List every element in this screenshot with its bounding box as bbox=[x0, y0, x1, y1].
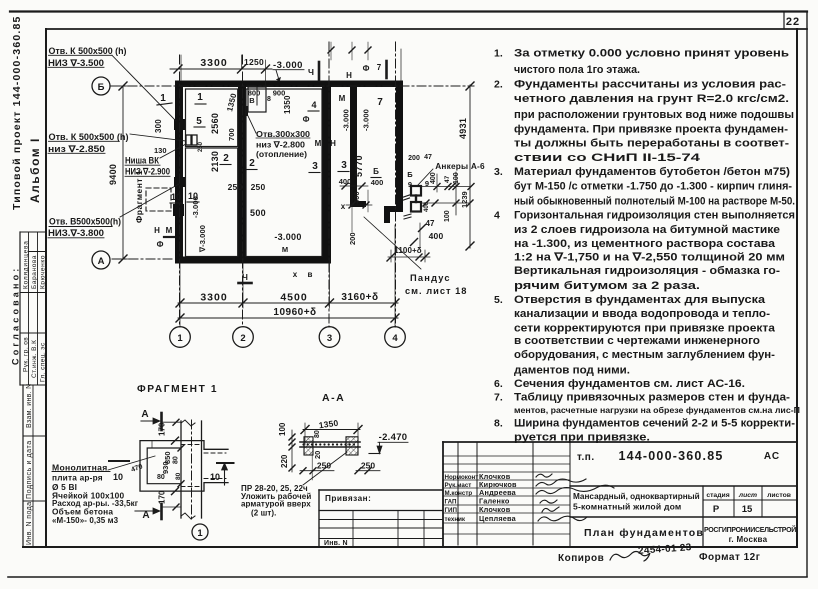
svg-text:Ниша ВК: Ниша ВК bbox=[125, 156, 160, 166]
svg-text:5.: 5. bbox=[494, 294, 503, 306]
svg-text:Рук. гр. ов: Рук. гр. ов bbox=[23, 337, 30, 372]
svg-text:Н: Н bbox=[346, 71, 352, 80]
svg-text:Анкеры А-6: Анкеры А-6 bbox=[435, 161, 485, 171]
svg-text:Отв. К 500х500 (h): Отв. К 500х500 (h) bbox=[49, 132, 129, 142]
svg-text:т.п.: т.п. bbox=[577, 452, 595, 463]
svg-text:8: 8 bbox=[267, 96, 271, 103]
svg-text:1350: 1350 bbox=[318, 418, 339, 431]
svg-text:470: 470 bbox=[130, 463, 143, 474]
svg-text:7: 7 bbox=[377, 97, 383, 108]
svg-text:Взам. инв. N: Взам. инв. N bbox=[26, 383, 33, 428]
svg-text:Б: Б bbox=[373, 167, 379, 176]
svg-text:Согласовано:: Согласовано: bbox=[11, 266, 21, 366]
svg-text:200: 200 bbox=[408, 155, 420, 162]
svg-text:см. лист 18: см. лист 18 bbox=[405, 286, 467, 296]
svg-text:Вертикальная гидроизоляция - о: Вертикальная гидроизоляция - обмазка го- bbox=[514, 265, 780, 277]
svg-text:-2.470: -2.470 bbox=[379, 432, 408, 443]
svg-text:8.: 8. bbox=[494, 418, 503, 430]
svg-text:4: 4 bbox=[392, 333, 398, 344]
svg-text:Горизонтальная гидроизоляция с: Горизонтальная гидроизоляция стен выполн… bbox=[514, 210, 795, 222]
svg-text:250: 250 bbox=[228, 182, 243, 192]
svg-text:930: 930 bbox=[161, 461, 170, 474]
svg-text:500: 500 bbox=[250, 208, 266, 218]
svg-text:400: 400 bbox=[339, 177, 352, 186]
svg-text:80: 80 bbox=[157, 474, 165, 481]
svg-text:Подпись и дата: Подпись и дата bbox=[26, 440, 33, 499]
svg-text:-3.000: -3.000 bbox=[273, 60, 303, 71]
svg-text:3160+δ: 3160+δ bbox=[341, 292, 378, 303]
svg-text:ты должны быть переработаны в: ты должны быть переработаны в соответ- bbox=[514, 138, 789, 150]
svg-text:М: М bbox=[339, 94, 346, 103]
svg-text:в: в bbox=[308, 270, 313, 279]
svg-text:чистого пола 1го этажа.: чистого пола 1го этажа. bbox=[514, 64, 640, 76]
svg-text:9: 9 bbox=[408, 180, 412, 189]
svg-text:Формат 12г: Формат 12г bbox=[699, 552, 760, 563]
svg-text:Инв. N: Инв. N bbox=[324, 540, 348, 547]
svg-text:Рук.маст: Рук.маст bbox=[445, 482, 472, 489]
svg-text:10960+δ: 10960+δ bbox=[273, 307, 316, 318]
svg-text:200: 200 bbox=[348, 232, 357, 245]
svg-text:9400: 9400 bbox=[108, 164, 118, 185]
svg-text:Н: Н bbox=[154, 226, 160, 235]
svg-text:2.: 2. bbox=[494, 79, 503, 91]
svg-text:А: А bbox=[98, 256, 105, 267]
svg-text:ментов, расчетные нагрузки на: ментов, расчетные нагрузки на обрезе фун… bbox=[514, 405, 800, 415]
svg-text:НИЗ ∇-2.900: НИЗ ∇-2.900 bbox=[125, 167, 170, 177]
svg-text:(2 шт).: (2 шт). bbox=[251, 509, 277, 518]
svg-text:Б: Б bbox=[407, 170, 413, 179]
svg-text:400: 400 bbox=[429, 231, 444, 241]
svg-text:10: 10 bbox=[210, 472, 220, 482]
svg-text:Пандус: Пандус bbox=[410, 273, 451, 283]
svg-text:-3.000: -3.000 bbox=[362, 109, 371, 131]
svg-text:М.констр: М.констр bbox=[445, 490, 473, 497]
svg-text:(отопление): (отопление) bbox=[256, 149, 307, 159]
svg-text:сети корректируются при привяз: сети корректируются при привязке проекта bbox=[514, 323, 776, 335]
svg-text:руется при привязке.: руется при привязке. bbox=[514, 432, 650, 444]
svg-text:4: 4 bbox=[311, 100, 316, 110]
svg-text:План фундаментов: План фундаментов bbox=[584, 527, 704, 539]
svg-text:четного давления на грунт R=2.: четного давления на грунт R=2.0 кгс/см2. bbox=[514, 93, 789, 105]
svg-text:250: 250 bbox=[251, 182, 266, 192]
svg-text:Н: Н bbox=[330, 139, 336, 148]
svg-text:47: 47 bbox=[444, 175, 451, 183]
svg-text:на -1.300, из цементного раств: на -1.300, из цементного раствора состав… bbox=[514, 238, 776, 250]
svg-text:6.: 6. bbox=[494, 378, 503, 390]
svg-text:ГАП: ГАП bbox=[445, 499, 458, 506]
svg-text:1: 1 bbox=[197, 92, 203, 103]
svg-text:100: 100 bbox=[278, 422, 287, 436]
svg-text:3300: 3300 bbox=[200, 292, 227, 304]
svg-text:80: 80 bbox=[314, 430, 321, 438]
svg-text:250: 250 bbox=[317, 461, 331, 471]
svg-text:Сечения фундаментов см. лист А: Сечения фундаментов см. лист АС-16. bbox=[514, 378, 745, 390]
svg-text:2: 2 bbox=[240, 333, 245, 344]
svg-text:ФРАГМЕНТ 1: ФРАГМЕНТ 1 bbox=[137, 384, 218, 395]
svg-text:Альбом I: Альбом I bbox=[28, 137, 42, 203]
svg-text:Гл. спец. эс: Гл. спец. эс bbox=[40, 342, 47, 382]
svg-text:2560: 2560 bbox=[210, 113, 220, 134]
svg-text:2130: 2130 bbox=[210, 151, 220, 172]
svg-text:А-А: А-А bbox=[322, 392, 345, 404]
svg-text:Баранова: Баранова bbox=[31, 255, 38, 289]
svg-text:300: 300 bbox=[154, 119, 163, 133]
svg-text:2: 2 bbox=[223, 153, 229, 164]
svg-text:ный обыкновенный полнотелый М-: ный обыкновенный полнотелый М-100 на рас… bbox=[514, 196, 795, 208]
svg-text:х: х bbox=[293, 270, 298, 279]
svg-text:в соответствии с чертежами инж: в соответствии с чертежами инженерного bbox=[514, 335, 760, 347]
svg-text:3: 3 bbox=[312, 161, 318, 172]
svg-text:листов: листов bbox=[767, 492, 791, 499]
svg-text:80: 80 bbox=[173, 456, 180, 464]
svg-text:Фундаменты рассчитаны из услов: Фундаменты рассчитаны из условия рас- bbox=[514, 79, 786, 91]
svg-text:1100+δ: 1100+δ bbox=[394, 246, 422, 255]
svg-text:Нормоконт: Нормоконт bbox=[445, 474, 479, 481]
svg-text:х: х bbox=[341, 202, 346, 211]
svg-text:47: 47 bbox=[424, 154, 432, 161]
svg-text:Ч: Ч bbox=[242, 273, 248, 282]
svg-text:3: 3 bbox=[327, 333, 332, 344]
svg-text:400: 400 bbox=[352, 191, 361, 204]
svg-text:1.: 1. bbox=[494, 48, 503, 60]
svg-text:-3.000: -3.000 bbox=[274, 232, 301, 242]
svg-text:арматурой вверх: арматурой вверх bbox=[241, 500, 311, 509]
svg-text:М: М bbox=[282, 245, 288, 254]
svg-text:5: 5 bbox=[196, 116, 202, 127]
svg-text:Отв.300х300: Отв.300х300 bbox=[256, 129, 310, 139]
svg-text:РОСГИПРОНИИСЕЛЬСТРОЙ: РОСГИПРОНИИСЕЛЬСТРОЙ bbox=[704, 525, 796, 534]
svg-text:47: 47 bbox=[426, 219, 435, 228]
svg-text:Колядинцева: Колядинцева bbox=[23, 240, 30, 289]
svg-text:1: 1 bbox=[197, 528, 203, 539]
svg-text:2454-01 23: 2454-01 23 bbox=[638, 542, 692, 557]
svg-text:ствии со СНиП II-15-74: ствии со СНиП II-15-74 bbox=[514, 152, 700, 164]
svg-text:400: 400 bbox=[424, 201, 430, 212]
svg-text:15: 15 bbox=[742, 504, 753, 515]
svg-text:4500: 4500 bbox=[280, 292, 307, 304]
svg-text:даментов под ними.: даментов под ними. bbox=[514, 365, 630, 377]
svg-text:В: В bbox=[249, 96, 255, 105]
svg-text:2: 2 bbox=[249, 158, 255, 169]
svg-text:170: 170 bbox=[158, 422, 167, 436]
svg-text:низ ∇-2.850: низ ∇-2.850 bbox=[48, 144, 105, 154]
svg-text:Таблицу привязочных размеров с: Таблицу привязочных размеров стен и фунд… bbox=[514, 392, 790, 404]
svg-text:Р: Р bbox=[713, 504, 720, 515]
svg-text:Материал фундаментов бутобетон: Материал фундаментов бутобетон /бетон м7… bbox=[514, 166, 790, 178]
svg-text:-3.000: -3.000 bbox=[191, 196, 200, 218]
svg-text:оборудования, с местным заглуб: оборудования, с местным заглублением фун… bbox=[514, 349, 775, 361]
svg-text:-3.000: -3.000 bbox=[342, 109, 351, 131]
svg-text:250: 250 bbox=[361, 461, 375, 471]
svg-text:фундамента. При привязке проек: фундамента. При привязке проекта фундаме… bbox=[514, 124, 788, 136]
svg-text:Фрагмент 1: Фрагмент 1 bbox=[134, 170, 144, 223]
svg-text:5770: 5770 bbox=[354, 155, 364, 177]
svg-text:Копиров: Копиров bbox=[558, 553, 604, 564]
svg-text:4931: 4931 bbox=[458, 118, 468, 139]
svg-text:1: 1 bbox=[160, 93, 166, 104]
svg-text:Отверстия в фундаментах для вы: Отверстия в фундаментах для выпуска bbox=[514, 294, 766, 306]
svg-text:Ф: Ф bbox=[363, 64, 370, 73]
svg-text:1:2 на ∇-1,750 и на ∇-2,550 то: 1:2 на ∇-1,750 и на ∇-2,550 толщиной 20 … bbox=[514, 252, 785, 264]
svg-text:Клочков: Клочков bbox=[479, 505, 511, 514]
svg-text:Ширина фундаментов сечений 2-2: Ширина фундаментов сечений 2-2 и 5-5 кор… bbox=[514, 418, 795, 430]
svg-text:1: 1 bbox=[177, 333, 183, 344]
svg-text:Ч: Ч bbox=[308, 67, 314, 77]
svg-text:Ст.инж. В.К: Ст.инж. В.К bbox=[31, 340, 38, 378]
svg-text:НИЗ.∇-3.800: НИЗ.∇-3.800 bbox=[48, 228, 104, 238]
svg-text:Отв. В500х500(h): Отв. В500х500(h) bbox=[49, 217, 121, 227]
svg-text:М: М bbox=[315, 139, 322, 148]
svg-text:4: 4 bbox=[494, 210, 500, 222]
svg-text:г. Москва: г. Москва bbox=[729, 535, 768, 544]
svg-text:Ф: Ф bbox=[157, 240, 164, 249]
svg-text:220: 220 bbox=[280, 454, 289, 468]
svg-text:низ ∇-2.800: низ ∇-2.800 bbox=[256, 140, 305, 150]
svg-text:техник: техник bbox=[445, 516, 466, 523]
svg-text:700: 700 bbox=[227, 128, 236, 141]
svg-text:7.: 7. bbox=[494, 392, 503, 404]
svg-text:100: 100 bbox=[453, 172, 460, 184]
svg-text:400: 400 bbox=[430, 172, 437, 184]
svg-text:1250: 1250 bbox=[244, 57, 264, 67]
svg-text:400: 400 bbox=[371, 178, 384, 187]
svg-text:Привязан:: Привязан: bbox=[325, 494, 371, 503]
svg-text:Цепляева: Цепляева bbox=[479, 514, 517, 523]
svg-text:«М-150»- 0,35 м3: «М-150»- 0,35 м3 bbox=[52, 516, 119, 525]
svg-text:канализации и ввода водопровод: канализации и ввода водопровода и тепло- bbox=[514, 308, 770, 320]
svg-text:22: 22 bbox=[786, 16, 800, 28]
svg-text:1350: 1350 bbox=[225, 92, 238, 113]
svg-text:НИЗ ∇-3.500: НИЗ ∇-3.500 bbox=[48, 58, 104, 68]
svg-text:Инв. N пода: Инв. N пода bbox=[26, 502, 33, 545]
svg-text:900: 900 bbox=[273, 89, 286, 98]
svg-text:∇-3.000: ∇-3.000 bbox=[198, 225, 207, 253]
svg-text:1350: 1350 bbox=[283, 95, 292, 114]
svg-text:5-комнатный жилой дом: 5-комнатный жилой дом bbox=[573, 502, 682, 512]
svg-text:За отметку 0.000 условно приня: За отметку 0.000 условно принят уровень bbox=[514, 48, 789, 60]
svg-text:170: 170 bbox=[158, 490, 167, 504]
svg-text:Отв. К 500х500 (h): Отв. К 500х500 (h) bbox=[49, 46, 127, 56]
svg-text:при расположении грунтовых вод: при расположении грунтовых вод ниже подо… bbox=[514, 109, 794, 121]
svg-text:260: 260 bbox=[198, 141, 204, 152]
svg-text:бут М-150 /с отметки -1.750 до: бут М-150 /с отметки -1.750 до -1.300 - … bbox=[514, 181, 792, 193]
svg-text:А: А bbox=[141, 409, 148, 420]
svg-text:лист: лист bbox=[738, 492, 757, 499]
svg-text:плита ар-ря: плита ар-ря bbox=[52, 473, 103, 483]
svg-text:Объем бетона: Объем бетона bbox=[52, 507, 113, 517]
svg-text:ГИП: ГИП bbox=[445, 507, 458, 514]
svg-text:стадия: стадия bbox=[706, 492, 729, 499]
svg-text:9: 9 bbox=[425, 179, 429, 188]
svg-text:из 2 слоев гидроизола на битум: из 2 слоев гидроизола на битумной мастик… bbox=[514, 224, 780, 236]
svg-text:1239: 1239 bbox=[460, 191, 469, 208]
svg-text:Ф: Ф bbox=[303, 115, 310, 124]
svg-text:7: 7 bbox=[377, 63, 382, 72]
svg-text:А: А bbox=[142, 510, 149, 521]
svg-text:3.: 3. bbox=[494, 166, 503, 178]
svg-text:10: 10 bbox=[113, 472, 123, 482]
svg-text:Мансардный, одноквартирный: Мансардный, одноквартирный bbox=[573, 492, 700, 501]
svg-text:100: 100 bbox=[444, 210, 451, 222]
svg-text:Б: Б bbox=[98, 82, 105, 93]
svg-text:144-000-360.85: 144-000-360.85 bbox=[618, 449, 723, 463]
svg-text:М: М bbox=[166, 226, 173, 235]
svg-text:3: 3 bbox=[341, 160, 347, 171]
svg-text:Монолитная: Монолитная bbox=[52, 463, 108, 473]
svg-text:20: 20 bbox=[313, 451, 322, 459]
svg-text:80: 80 bbox=[175, 472, 182, 480]
svg-text:рячим битумом за 2 раза.: рячим битумом за 2 раза. bbox=[514, 280, 700, 292]
svg-text:Типовой проект 144-000-360.8: Типовой проект 144-000-360.85 bbox=[11, 15, 23, 210]
svg-text:130: 130 bbox=[154, 146, 167, 155]
svg-text:10: 10 bbox=[171, 192, 181, 202]
svg-text:АС: АС bbox=[764, 451, 780, 462]
svg-text:3300: 3300 bbox=[200, 57, 227, 69]
svg-text:Крюченко: Крюченко bbox=[40, 255, 47, 289]
